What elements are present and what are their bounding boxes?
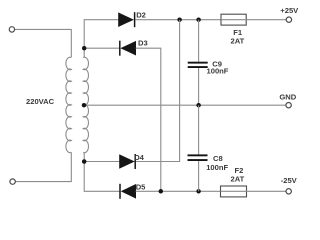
wire: primary bottom to bottom-left terminal: [15, 152, 71, 181]
node: D2/D4 positive bus junction: [177, 17, 182, 22]
node: C8 / negative rail junction: [196, 189, 201, 194]
wire: secondary bottom tap to D4 row: [84, 161, 119, 163]
svg-text:+25V: +25V: [280, 6, 299, 15]
wire: capacitor bus C8 lower to D5 row: [198, 161, 200, 191]
svg-text:100nF: 100nF: [207, 67, 229, 76]
terminal: AC input bottom-left: [10, 179, 15, 184]
node: positive bus / C9 junction: [196, 17, 201, 22]
wire: top-left terminal to primary top: [15, 29, 72, 57]
wire: secondary bottom down to D5 row: [84, 152, 120, 191]
node: center tap junction: [82, 103, 87, 108]
wire: D3 anode to negative bus: [136, 48, 161, 191]
diode D4: [120, 154, 136, 169]
capacitor C8: [188, 154, 208, 161]
capacitor C9: [188, 62, 208, 68]
wire: capacitor bus GND row to C8: [198, 105, 200, 154]
wire: center tap to GND terminal: [84, 104, 286, 106]
node: secondary bottom tap junction: [82, 159, 87, 164]
wire: positive bus D2 row to D4 row: [135, 20, 180, 162]
wire: capacitor bus C9 upper: [198, 20, 200, 62]
fuse F2: [221, 186, 247, 197]
svg-text:GND: GND: [279, 92, 296, 101]
node: secondary top tap junction: [82, 46, 87, 51]
svg-text:D4: D4: [134, 153, 144, 162]
diode D2: [119, 12, 135, 27]
wire: fuse F1 to +25V terminal: [246, 19, 286, 21]
wire: D5 row to fuse F2: [136, 190, 221, 192]
transformer TR1 primary winding: [66, 57, 71, 152]
svg-text:220VAC: 220VAC: [26, 97, 55, 106]
diode D5: [120, 184, 136, 199]
node: negative bus / D5 row junction: [159, 189, 164, 194]
wire: capacitor bus C9 lower to GND row: [198, 68, 200, 105]
wire: fuse F2 to -25V terminal: [247, 190, 287, 192]
wire: secondary top tap up to D2 row: [84, 20, 118, 58]
terminal: AC input top-left: [9, 27, 14, 32]
terminal: -25V output: [286, 189, 291, 194]
svg-text:2AT: 2AT: [231, 36, 245, 45]
svg-text:-25V: -25V: [281, 176, 298, 185]
terminal: GND output: [286, 103, 291, 108]
svg-text:D3: D3: [138, 39, 148, 48]
svg-text:D2: D2: [136, 11, 146, 20]
wire: secondary top node to D3 cathode: [84, 47, 120, 49]
diode D3: [120, 41, 136, 56]
svg-text:D5: D5: [136, 182, 146, 191]
svg-text:100nF: 100nF: [206, 163, 228, 172]
transformer TR1 secondary winding: [83, 57, 88, 152]
svg-text:C8: C8: [213, 154, 223, 163]
wire: D2 cathode to fuse F1: [135, 19, 221, 21]
svg-text:2AT: 2AT: [231, 174, 245, 183]
fuse F1: [221, 14, 246, 25]
node: GND / capacitor bus junction: [196, 103, 201, 108]
terminal: +25V output: [286, 17, 291, 22]
